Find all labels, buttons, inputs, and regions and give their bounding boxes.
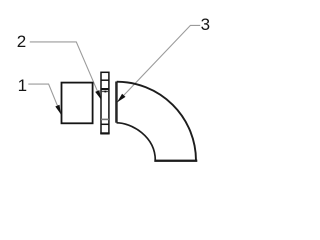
svg-text:1: 1 bbox=[18, 76, 27, 95]
svg-text:3: 3 bbox=[201, 15, 210, 34]
svg-text:2: 2 bbox=[17, 32, 26, 51]
